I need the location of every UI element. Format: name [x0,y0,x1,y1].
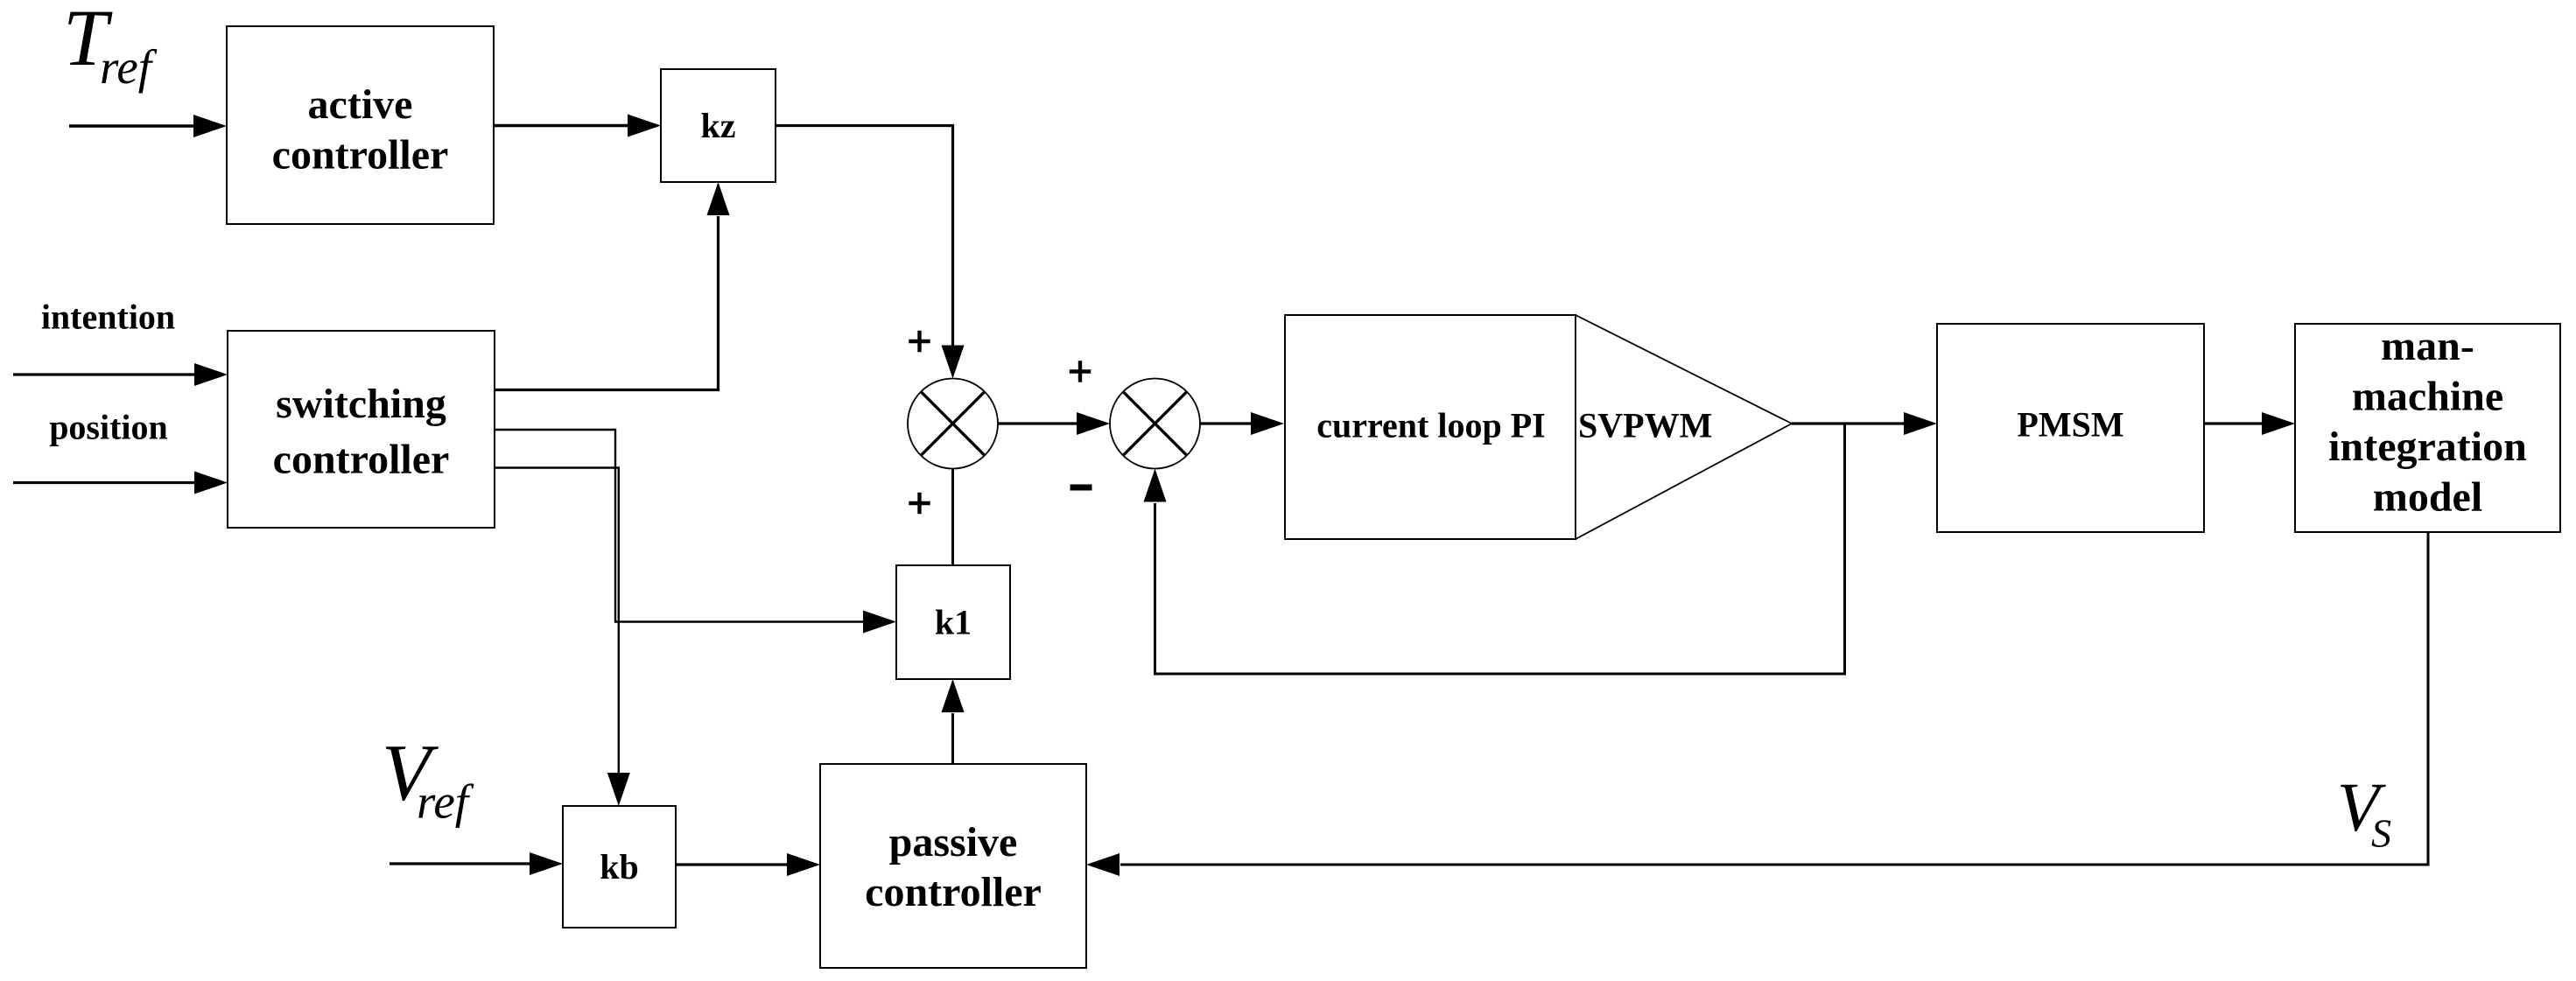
wire current feedback from SVPWM output junction to M2 bottom [1144,424,1845,674]
block kb gain [563,806,676,928]
svg-text:controller: controller [272,132,449,179]
wire switching out2 down then right into k1 [495,430,896,634]
svg-text:switching: switching [276,381,446,427]
block current loop PI [1285,315,1576,539]
block switching controller [228,331,495,528]
wire position arrow [13,472,228,494]
svg-text:kb: kb [600,847,639,886]
wire passive controller up into k1 [942,679,965,764]
block k1 gain [896,565,1010,679]
wire M1 to M2 [998,412,1110,435]
wire kb to passive controller [676,853,820,876]
svg-text:ref: ref [100,40,158,94]
label T_ref input signal [63,0,158,94]
svg-text:model: model [2373,474,2482,521]
wire PMSM to man-machine model [2204,412,2295,435]
svg-text:current loop PI: current loop PI [1316,406,1545,445]
plus sign upper input of M1 [909,331,930,352]
svg-text:intention: intention [41,298,175,337]
svg-text:SVPWM: SVPWM [1578,406,1712,445]
multiplier junction M2 (circle with X) [1110,379,1200,469]
svg-text:active: active [308,81,413,128]
block kz gain [661,69,776,182]
svg-text:position: position [49,408,168,447]
svg-text:k1: k1 [935,603,972,642]
wire active controller to kz [494,115,661,137]
svg-text:PMSM: PMSM [2017,405,2123,445]
svg-text:S: S [2371,811,2391,856]
block active controller [227,26,494,224]
wire kz output to multiplier M1 (down at x=1088.5) [776,126,965,379]
svg-text:integration: integration [2328,424,2527,470]
wire intention arrow [13,363,228,386]
wire V_ref arrow into kb [390,852,563,875]
svg-text:controller: controller [273,437,450,483]
label V_S feedback signal [2337,770,2391,856]
svg-text:man-: man- [2381,323,2474,369]
minus sign lower input of M2 [1070,485,1092,491]
block PMSM [1937,324,2204,532]
block passive controller [820,764,1086,968]
label V_ref input [382,728,474,829]
svg-text:passive: passive [889,819,1018,865]
svg-text:controller: controller [865,869,1042,915]
plus sign left input of M2 [1070,361,1091,382]
wire T_ref arrow into active controller [69,115,227,137]
plus sign lower input of M1 [909,493,930,514]
svg-text:ref: ref [417,775,474,829]
svg-text:kz: kz [701,106,736,145]
SVPWM inverter triangle [1576,315,1792,539]
wire switching out1 up into kz bottom [495,182,730,390]
wire SVPWM apex to PMSM (junction at x=2107.5) [1792,412,1937,435]
svg-text:machine: machine [2352,374,2503,420]
wire k1 up to M1 bottom [951,469,954,566]
wire V_S feedback from man-machine bottom into passive controller [1086,532,2428,876]
wire M2 to current loop PI [1200,412,1284,435]
block man-machine integration model [2295,323,2560,532]
wire switching out3 down into kb [495,468,630,807]
multiplier junction M1 (circle with X) [908,379,998,469]
